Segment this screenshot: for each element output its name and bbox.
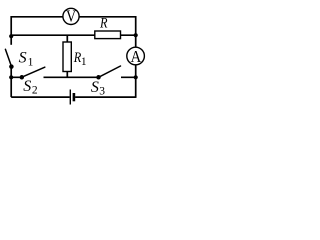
svg-text:R: R [99,14,108,30]
svg-text:S: S [91,79,99,96]
svg-text:V: V [66,7,77,26]
svg-text:S: S [19,49,27,66]
svg-text:A: A [130,48,141,66]
svg-text:S: S [23,78,31,95]
svg-text:1: 1 [28,57,34,69]
svg-text:2: 2 [32,84,38,96]
svg-text:3: 3 [99,86,105,98]
svg-text:1: 1 [81,56,87,68]
